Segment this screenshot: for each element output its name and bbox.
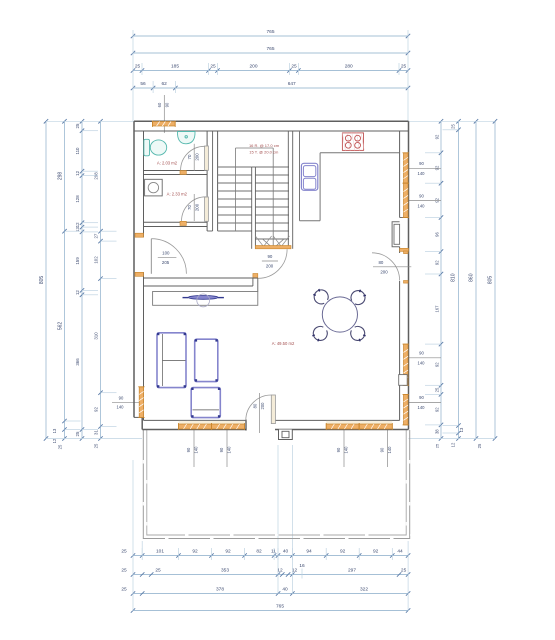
right wall window labels 90/140 [409,161,442,176]
top extension lines [133,30,408,121]
svg-text:25: 25 [401,64,407,70]
outer wall right [400,121,409,429]
svg-text:25: 25 [435,387,440,392]
svg-text:90: 90 [336,447,341,452]
svg-text:90: 90 [419,193,424,198]
svg-text:90: 90 [380,447,385,452]
window label 60/90 top [157,95,169,133]
left dim col 298/562 [52,119,67,449]
label bath door 70/200 [187,144,199,171]
svg-text:25: 25 [121,549,127,555]
svg-text:90: 90 [186,447,191,452]
dining chair [351,290,366,305]
window left wall 90/140 [138,387,144,418]
svg-text:25: 25 [75,123,80,128]
svg-text:110: 110 [75,147,80,155]
svg-text:140: 140 [117,404,125,409]
svg-text:353: 353 [221,568,229,574]
svg-text:96: 96 [435,232,440,237]
svg-text:562: 562 [58,322,64,331]
washing machine [145,179,163,196]
svg-text:11: 11 [271,549,276,555]
svg-text:13: 13 [459,427,464,432]
label stair door 90/200 [262,254,278,268]
svg-text:82: 82 [256,549,262,555]
svg-text:27: 27 [94,233,99,238]
svg-text:200: 200 [266,264,274,269]
right dim col 25/810 [451,119,465,447]
bottom row 25/378/40/322 [121,587,410,596]
svg-text:140: 140 [387,446,392,454]
kitchen sink [301,163,317,190]
kitchen counter [300,131,400,221]
svg-text:80: 80 [253,403,258,408]
label dining door 80/200 [373,260,411,274]
svg-text:92: 92 [192,549,198,555]
console sideboard [153,292,258,307]
svg-text:25: 25 [58,444,63,449]
svg-text:90: 90 [219,447,224,452]
svg-text:102: 102 [94,256,99,264]
dining chair [313,289,328,304]
svg-text:25: 25 [121,587,127,593]
coffee table [195,339,218,381]
svg-text:205: 205 [162,260,170,265]
svg-text:92: 92 [94,407,99,412]
svg-text:140: 140 [418,405,426,410]
svg-text:92: 92 [435,134,440,139]
windows right wall [403,153,410,183]
svg-text:647: 647 [288,81,296,87]
svg-text:805: 805 [488,276,494,285]
label laundry door 70/200 [187,194,199,221]
stair walk line + arrow [236,148,284,249]
svg-text:805: 805 [39,276,45,285]
svg-text:90: 90 [267,254,272,259]
svg-text:40: 40 [283,549,289,555]
svg-text:16 R. @ 17.0 cm: 16 R. @ 17.0 cm [249,143,280,148]
left connectors [46,121,142,438]
left dim col 298/27/102/310/92/31 [94,119,103,448]
label entry door 100/205 [158,251,177,265]
svg-text:40: 40 [282,587,288,593]
svg-text:25: 25 [401,568,407,574]
left dim col 25/110/12/128/12/13/159/12/366/25 [75,119,84,441]
svg-text:185: 185 [171,64,179,70]
bottom wall window labels 90/140 [186,430,199,467]
svg-text:140: 140 [418,171,426,176]
pillar below bottom wall [279,430,293,440]
dining chair [351,326,366,341]
right wall orange sill bits [400,248,409,251]
svg-text:322: 322 [360,587,368,593]
svg-text:62: 62 [162,81,168,87]
svg-text:128: 128 [75,195,80,203]
right dim col 92 segments [435,119,444,448]
svg-text:25: 25 [75,431,80,436]
stair cut lines [255,236,289,247]
bottom extension lines [133,445,408,611]
svg-text:366: 366 [75,358,80,366]
svg-text:92: 92 [435,407,440,412]
stair right rail [288,131,292,249]
stair treads left flight [218,167,252,231]
bath sink [177,132,195,144]
svg-text:90: 90 [164,102,169,107]
stove [342,133,364,151]
stair treads right flight [255,167,289,239]
right dim col 860 [469,119,483,448]
svg-text:12: 12 [451,442,456,447]
svg-text:A: 49.50 m2: A: 49.50 m2 [272,341,295,346]
svg-text:25: 25 [435,443,440,448]
svg-text:200: 200 [194,203,199,211]
svg-text:38: 38 [435,429,440,434]
svg-text:860: 860 [469,273,475,282]
svg-text:765: 765 [266,29,274,35]
svg-text:200: 200 [380,269,388,274]
svg-text:92: 92 [373,549,379,555]
svg-text:140: 140 [194,446,199,454]
windows bottom wall [179,421,393,425]
fireplace niche right wall [392,222,400,247]
right connectors [409,121,496,438]
svg-text:25: 25 [291,64,297,70]
window label 90/140 left wall [112,395,144,409]
svg-text:297: 297 [348,568,356,574]
svg-text:140: 140 [418,361,426,366]
window top wall 60/90 [152,121,175,128]
svg-text:25: 25 [94,443,99,448]
svg-text:A: 2.33 m2: A: 2.33 m2 [167,191,188,196]
stair door 90/200 [253,249,287,278]
right dim col 805 [488,119,498,441]
svg-text:92: 92 [435,362,440,367]
svg-text:200: 200 [249,64,257,70]
svg-text:44: 44 [397,549,403,555]
svg-text:15 T. @ 20.0 cm: 15 T. @ 20.0 cm [249,149,279,154]
svg-text:101: 101 [156,549,164,555]
dining table [322,297,357,332]
svg-text:140: 140 [418,203,426,208]
svg-text:12: 12 [75,222,80,227]
svg-text:159: 159 [75,257,80,265]
svg-text:90: 90 [119,395,124,400]
svg-text:200: 200 [260,402,265,410]
dim row top 25/185/25/200/25/280/25 [131,63,410,75]
svg-text:140: 140 [227,446,232,454]
svg-text:765: 765 [276,604,284,610]
svg-text:140: 140 [344,446,349,454]
svg-text:92: 92 [340,549,346,555]
svg-text:70: 70 [187,205,192,210]
laundry door 70/200 [180,197,208,226]
svg-text:31: 31 [94,430,99,435]
svg-text:298: 298 [58,172,64,181]
svg-text:25: 25 [121,568,127,574]
outer wall bottom [142,420,408,429]
armchair [191,388,220,418]
svg-text:13: 13 [52,428,57,433]
toilet [144,139,167,156]
bottom row 765 [131,604,411,613]
svg-text:70: 70 [187,154,192,159]
svg-text:310: 310 [94,332,99,340]
wall bathroom/laundry divider [144,171,208,175]
svg-text:810: 810 [451,273,457,282]
bottom row 25/25/353/12/16/12/297/25 [121,563,410,579]
svg-text:94: 94 [306,549,312,555]
svg-text:25: 25 [155,568,161,574]
svg-text:25: 25 [135,64,141,70]
bathroom door 70/200 [180,146,208,175]
svg-text:92: 92 [435,197,440,202]
entry door 100/205 left wall [135,233,186,276]
svg-text:378: 378 [216,587,224,593]
bottom row 25/101/92/92/82/11/40/94/92/92/44 [121,548,410,560]
svg-text:25: 25 [477,443,482,448]
left dim col 805 [39,119,48,441]
svg-text:167: 167 [435,305,440,313]
wall bath block right / stair left [207,131,218,231]
svg-text:100: 100 [162,251,170,256]
dim row top 56/62/647 [131,81,410,93]
svg-text:90: 90 [419,161,424,166]
patio door 80/200 bottom wall [246,395,276,431]
svg-text:A: 2.03 m2: A: 2.03 m2 [157,161,178,166]
console wall [144,278,258,292]
svg-text:92: 92 [435,260,440,265]
svg-text:90: 90 [419,395,424,400]
dining door 80/200 right wall [372,251,408,283]
label patio door 80/200 [253,393,265,433]
svg-text:16: 16 [299,563,305,569]
svg-text:25: 25 [210,64,216,70]
sofa [157,333,186,388]
svg-text:90: 90 [419,351,424,356]
wall laundry bottom [144,222,208,226]
svg-text:280: 280 [345,64,353,70]
stair bottom sill [255,246,291,249]
dining chair [312,326,327,341]
stair center rail [252,167,256,249]
outer wall left [134,121,144,429]
svg-text:80: 80 [378,260,383,265]
svg-text:92: 92 [225,549,231,555]
svg-text:60: 60 [157,102,162,107]
small niche square right wall [399,375,408,386]
deck patio outline [143,430,413,539]
svg-text:92: 92 [435,165,440,170]
svg-text:200: 200 [194,153,199,161]
outer wall top [134,121,409,131]
svg-text:765: 765 [266,46,274,52]
svg-text:56: 56 [140,81,146,87]
svg-text:12: 12 [75,170,80,175]
svg-text:12: 12 [75,290,80,295]
dim row top 765 (outermost) [131,29,410,38]
dim row top 765 (second) [131,46,410,55]
svg-text:25: 25 [451,124,456,129]
